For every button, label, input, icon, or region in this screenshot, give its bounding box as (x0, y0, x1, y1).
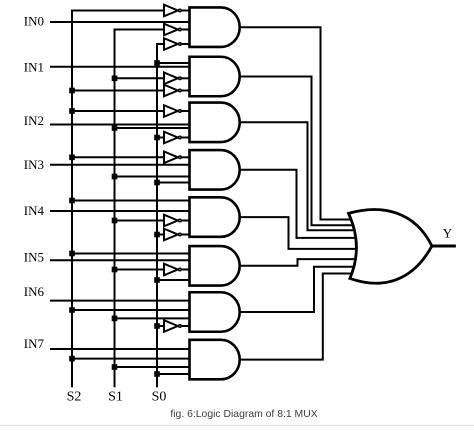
svg-text:IN2: IN2 (24, 113, 44, 128)
svg-text:IN0: IN0 (24, 14, 44, 29)
node S2/gate3 junction (69, 108, 75, 114)
node S1/gate2 junction (112, 76, 118, 82)
svg-text:IN7: IN7 (24, 336, 45, 351)
AND gate U8 (IN7) (190, 340, 240, 380)
wire IN5 data (50, 259, 200, 261)
svg-text:IN5: IN5 (24, 250, 44, 265)
node S2/gate6 junction (69, 251, 75, 257)
node S2/gate8 junction (69, 356, 75, 362)
node S2/gate4 junction (69, 155, 75, 161)
node S0/gate7 junction (154, 323, 160, 329)
inverter gate3 S2' (164, 105, 192, 117)
AND gate U6 (IN5) (190, 246, 240, 285)
node S2/gate2 junction (69, 88, 75, 94)
wire IN1 data (50, 66, 200, 68)
node S0/gate5 junction (154, 232, 160, 238)
wire tap S2 to gate2 inverter (72, 90, 166, 92)
wire S1 bus vertical with top corner to gate1 inverter (115, 30, 166, 388)
inverter gate1 S1' (164, 24, 192, 36)
node S0/gate4 junction (154, 180, 160, 186)
inverter gate1 S0' (164, 38, 192, 50)
AND gate U1 (IN0) (190, 7, 240, 47)
wire gate6 output to OR input 6 (240, 259, 358, 266)
wire tap S1 to gate8 direct (115, 366, 201, 368)
inverter gate5 S0' (164, 229, 192, 241)
inverter gate5 S1' (164, 215, 192, 227)
svg-text:IN1: IN1 (24, 59, 44, 74)
AND gate U4 (IN3) (190, 150, 240, 190)
wire tap S1 to gate2 inverter (115, 77, 167, 79)
wire tap S0 to gate7 inverter (157, 325, 166, 327)
wire tap S0 to gate6 direct (157, 279, 200, 281)
wire tap S1 to gate7 direct (115, 317, 201, 319)
node S1/gate5 junction (112, 218, 118, 224)
AND gate U2 (IN1) (190, 57, 240, 97)
wire Y output (432, 245, 456, 248)
node S0/gate8 junction (154, 371, 160, 377)
wire IN0 data (50, 21, 200, 23)
wire tap S2 to gate5 direct (72, 200, 200, 202)
wire IN3 data (50, 164, 200, 166)
wire tap S2 to gate4 inverter (72, 156, 166, 158)
wire S2 bus vertical with top corner to gate1 inverter (72, 11, 165, 388)
wire tap S2 to gate7 direct (72, 309, 200, 311)
node S0/gate6 junction (154, 277, 160, 283)
JUNCTION DOTS (69, 60, 160, 377)
wire gate2 output to OR input 2 (240, 77, 358, 226)
wire tap S0 to gate5 inverter (157, 234, 166, 236)
wire IN2 data (50, 124, 200, 126)
node S1/gate4 junction (112, 174, 118, 180)
wire IN7 data (50, 348, 200, 350)
svg-text:S1: S1 (108, 389, 123, 404)
wire S0 bus vertical with top corner to gate1 inverter (157, 44, 165, 387)
node S2/gate7 junction (69, 307, 75, 313)
wire tap S1 to gate3 direct (115, 127, 201, 129)
node S0/gate3 junction (154, 135, 160, 141)
wire gate4 output to OR input 4 (240, 170, 358, 238)
wire tap S2 to gate3 inverter (72, 110, 166, 112)
OR gate U9 (349, 210, 432, 284)
wire tap S1 to gate5 inverter (115, 220, 167, 222)
wire tap S2 to gate8 direct (72, 358, 200, 360)
svg-text:fig. 6:Logic Diagram of 8:1 MU: fig. 6:Logic Diagram of 8:1 MUX (170, 409, 317, 420)
wire tap S0 to gate8 direct (157, 373, 200, 375)
node S1/gate8 junction (112, 364, 118, 370)
svg-text:S0: S0 (152, 389, 167, 404)
AND gate U7 (IN6) (190, 292, 240, 332)
inverter gate3 S0' (164, 132, 192, 144)
inverter gate2 S1' (164, 73, 192, 85)
svg-text:Y: Y (443, 226, 453, 241)
AND gate U3 (IN2) (190, 103, 240, 143)
wire tap S0 to gate4 direct (157, 182, 200, 184)
inverter gate4 S2' (164, 152, 192, 164)
inverter gate6 S1' (164, 264, 192, 276)
decorative bottom rule (0, 425, 474, 427)
wire gate7 output to OR input 7 (240, 267, 358, 312)
svg-text:IN3: IN3 (24, 157, 44, 172)
wire gate8 output to OR input 8 (240, 274, 358, 360)
node S1/gate7 junction (112, 316, 118, 322)
node S1/gate3 junction (112, 125, 118, 131)
wire gate5 output to OR input 5 (240, 217, 358, 249)
wire tap S0 to gate3 inverter (157, 137, 166, 139)
inverter gate1 S2' (164, 5, 192, 17)
svg-text:S2: S2 (67, 389, 82, 404)
wire tap S0 to gate2 direct (157, 62, 200, 64)
inverter gate2 S2' (164, 85, 192, 97)
AND gate U5 (IN4) (190, 197, 240, 237)
wire tap S1 to gate6 inverter (115, 269, 167, 271)
wire tap S2 to gate6 direct (72, 253, 200, 255)
AND GATES (190, 7, 240, 379)
node S2/gate5 junction (69, 198, 75, 204)
wire tap S1 to gate4 direct (115, 176, 201, 178)
wire IN6 data (50, 300, 200, 302)
wire gate3 output to OR input 3 (240, 122, 358, 230)
inverter gate7 S0' (164, 320, 192, 332)
wire IN4 data (50, 210, 200, 212)
wire gate1 output to OR input 1 (240, 27, 358, 219)
svg-text:IN4: IN4 (24, 203, 45, 218)
node S0/gate2 junction (154, 60, 160, 66)
INVERTERS (164, 5, 192, 332)
svg-text:IN6: IN6 (24, 284, 45, 299)
node S1/gate6 junction (112, 267, 118, 273)
